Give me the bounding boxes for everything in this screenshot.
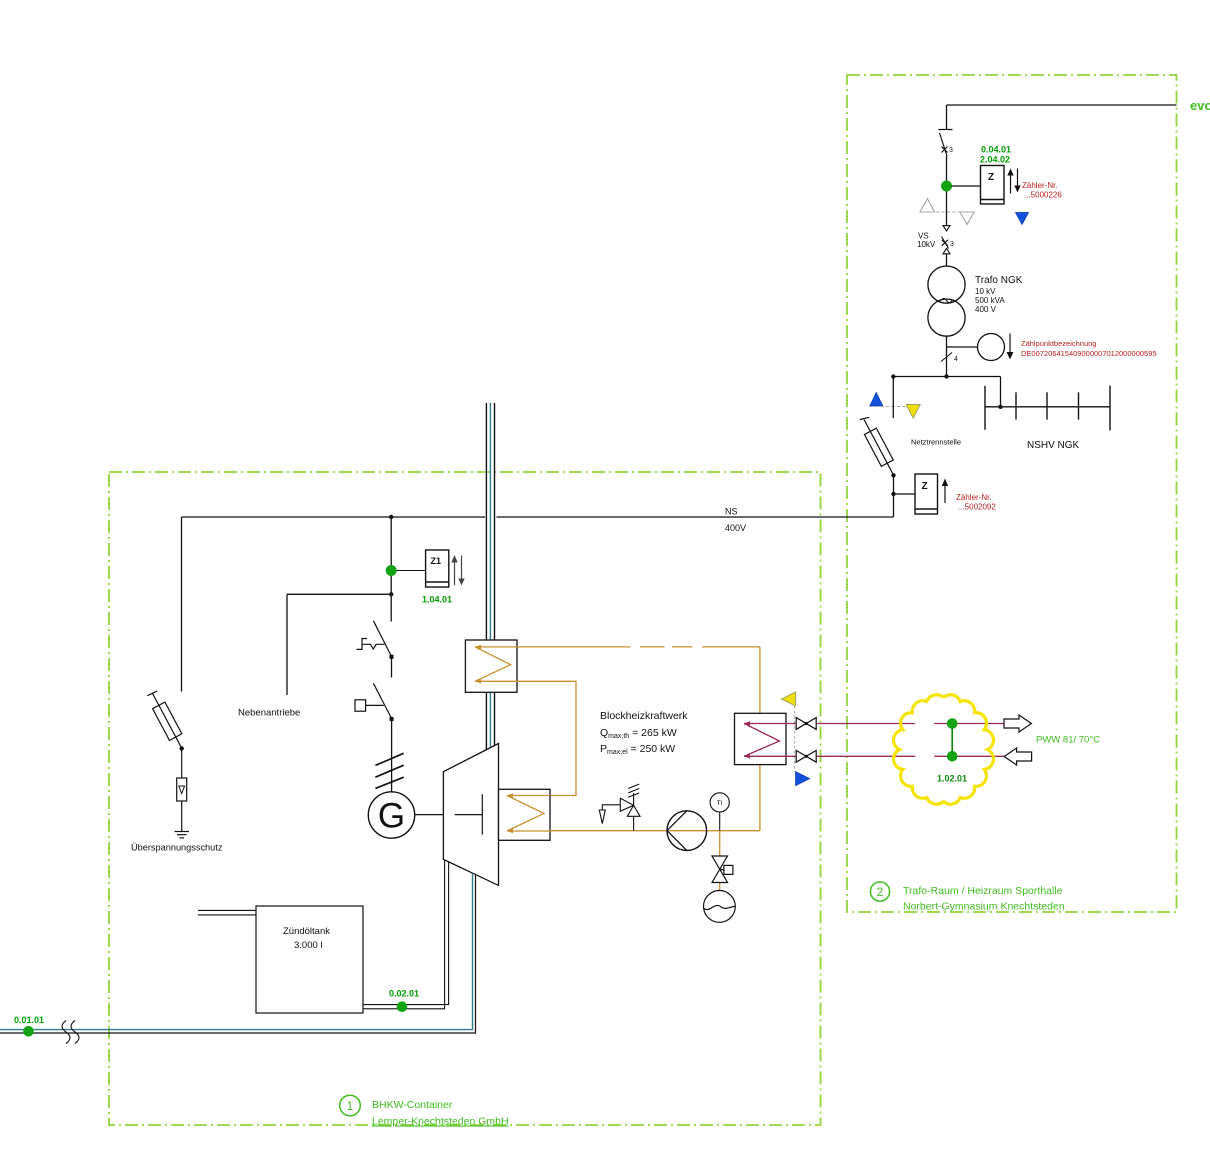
svg-text:TI: TI: [717, 800, 723, 807]
arrows at meter Z1: [451, 555, 464, 586]
pipe return lines (teal) engine to bottom: [0, 873, 473, 1029]
tank Zuendoeltank: [256, 906, 363, 1013]
node 0.02.01 green dot: [397, 1001, 408, 1012]
winding hatches: [375, 753, 403, 788]
svg-text:0.02.01: 0.02.01: [389, 989, 419, 999]
svg-text:10 kV: 10 kV: [975, 287, 996, 296]
circuit breaker with release: [357, 621, 392, 657]
svg-text:Zählpunktbezeichnung: Zählpunktbezeichnung: [1021, 339, 1096, 348]
section label 2 Trafo-Raum: [870, 882, 889, 901]
safety valve SV: [599, 784, 640, 831]
svg-text:G: G: [378, 797, 405, 836]
arrows energy direction at meter Z: [1007, 169, 1020, 194]
node 0.01.01 green dot: [23, 1026, 34, 1037]
valve (expansion line): [719, 831, 721, 891]
svg-text:1.04.01: 1.04.01: [422, 595, 452, 605]
marker yellow triangle (heating interface): [782, 692, 796, 706]
disconnector Q1 (HV switch): [939, 130, 953, 157]
wire evo feeder (HV incoming line): [947, 105, 1177, 130]
engine coupling mark: [455, 794, 483, 834]
thermometer TI: [710, 793, 729, 812]
svg-text:Nebenantriebe: Nebenantriebe: [238, 708, 300, 719]
svg-text:0.04.01: 0.04.01: [981, 145, 1011, 155]
marker blue triangle (meter): [1016, 213, 1029, 225]
arrow down at CT: [1009, 334, 1011, 354]
wire dot to meter Z: [952, 185, 981, 187]
node LV junction: [944, 374, 948, 378]
wire to meter Z 5002092: [894, 493, 916, 495]
wire fuse to arrester: [181, 748, 183, 778]
ground: [175, 832, 190, 838]
meter Z1: [426, 550, 449, 587]
arrow up at meter: [944, 484, 946, 503]
node 1.02.01 dots: [947, 718, 958, 729]
wire contactor to generator: [391, 719, 393, 792]
svg-text:1.02.01: 1.02.01: [937, 774, 967, 784]
marker blue triangle (Netztrennstelle): [870, 393, 883, 407]
surge arrester: [177, 778, 187, 801]
wire dashed boundary: [870, 406, 906, 408]
pipe exhaust lines (teal group) to top heat exchanger: [486, 403, 494, 750]
wire switch to transformer: [946, 156, 948, 226]
pump P1: [667, 811, 707, 851]
node 1.04.01 green dot: [386, 565, 397, 576]
svg-text:Z1: Z1: [431, 556, 442, 566]
svg-text:Netztrennstelle: Netztrennstelle: [911, 438, 961, 447]
section label 1 BHKW-Container: [340, 1095, 361, 1116]
container box 1 BHKW-Container (green dash-dot frame): [109, 472, 821, 1125]
pipe orange HX1 top port to BHKW HX (dashed run): [517, 647, 760, 713]
busbar NSHV NGK: [985, 386, 1110, 431]
svg-text:Lemper-Knechtsteden GmbH: Lemper-Knechtsteden GmbH: [372, 1116, 509, 1128]
LV fuse switch (open, with fuse body): [860, 417, 894, 475]
heat exchanger HX3 BHKW (plate): [735, 713, 787, 764]
svg-text:10kV: 10kV: [917, 240, 936, 249]
arrow flow in: [1004, 748, 1031, 765]
wire LV junction bar: [893, 377, 1000, 407]
svg-text:4: 4: [954, 356, 958, 363]
svg-text:Überspannungsschutz: Überspannungsschutz: [131, 843, 223, 853]
pipe PWW return line: [834, 755, 1005, 757]
svg-text:3: 3: [949, 147, 953, 154]
pipe PWW flow line: [834, 723, 1004, 725]
wire busbar junction to fuse: [892, 377, 894, 419]
wire dot to meter Z1: [397, 570, 426, 572]
meter Z (Zaehler 5000226): [981, 166, 1005, 205]
heat exchanger HX1 (exhaust, top): [465, 640, 517, 692]
wire arrester to ground: [181, 801, 183, 832]
svg-text:3: 3: [950, 241, 954, 248]
cloud (district boundary): [894, 695, 994, 804]
svg-text:Z: Z: [922, 481, 928, 492]
wire fuse to trafo: [946, 254, 948, 266]
pipe fuel lines engine to tank: [363, 860, 449, 1009]
LV fuse switch (surge branch, open): [147, 691, 182, 748]
svg-text:Z: Z: [988, 172, 994, 183]
svg-text:DE0072064154090000070120000005: DE007206415409000007012000000595: [1021, 349, 1157, 358]
conductor count slash 4: [941, 353, 952, 362]
generator G1: [368, 792, 414, 838]
svg-text:...5000226: ...5000226: [1024, 191, 1062, 200]
break mark on pipe: [62, 1021, 79, 1044]
svg-text:0.01.01: 0.01.01: [14, 1015, 44, 1025]
svg-text:Zündöltank: Zündöltank: [283, 926, 330, 937]
pipe tank fill lines: [198, 910, 256, 915]
wire NS to surge protection branch: [181, 517, 183, 692]
valve V1 (flow): [786, 723, 834, 725]
heat exchanger HX2 (engine): [499, 789, 551, 840]
marker blue triangle (heating interface): [796, 772, 810, 786]
wire dashed interface line: [794, 706, 796, 772]
container box 2 Trafo-Raum (green dash-dot frame): [847, 75, 1177, 912]
svg-text:3.000 l: 3.000 l: [294, 940, 323, 951]
engine block (trapezoid): [443, 744, 498, 886]
expansion vessel: [704, 891, 736, 923]
current transformer circle: [947, 346, 978, 348]
transformer Trafo NGK (two circles): [928, 266, 965, 336]
meter Z (Zaehler 5002092): [915, 474, 938, 514]
wire generator feeder down: [390, 517, 392, 622]
svg-text:1: 1: [347, 1099, 354, 1113]
svg-text:evo: evo: [1190, 98, 1210, 113]
svg-text:NSHV NGK: NSHV NGK: [1027, 440, 1080, 451]
contactor with drive: [355, 683, 392, 718]
svg-text:2.04.02: 2.04.02: [980, 155, 1010, 165]
wire NS 400V line: [182, 516, 894, 518]
wire breaker to contactor: [391, 657, 393, 678]
svg-text:Norbert-Gymnasium Knechtsteden: Norbert-Gymnasium Knechtsteden: [903, 901, 1065, 913]
svg-text:2: 2: [877, 885, 884, 899]
svg-text:400 V: 400 V: [975, 305, 997, 314]
pipe orange HX1 bottom port to engine HX: [517, 681, 576, 795]
svg-text:Blockheizkraftwerk: Blockheizkraftwerk: [600, 710, 688, 722]
node Nebenantriebe branch: [389, 592, 393, 596]
svg-text:Zähler-Nr.: Zähler-Nr.: [956, 493, 992, 502]
boundary marker grey triangles (property limit): [920, 199, 974, 225]
svg-text:BHKW-Container: BHKW-Container: [372, 1099, 453, 1111]
marker yellow triangle (Netztrennstelle): [906, 405, 920, 419]
wire fuse to NS line: [893, 475, 895, 517]
node NS / generator branch: [389, 515, 393, 519]
svg-text:NS: NS: [725, 507, 738, 517]
HV fuse switch VS 10kV (withdrawable): [942, 226, 951, 254]
svg-text:400V: 400V: [725, 523, 746, 533]
wire Nebenantriebe branch: [287, 594, 391, 695]
arrow flow out: [1004, 715, 1031, 732]
svg-text:500 kVA: 500 kVA: [975, 296, 1005, 305]
wire trafo to LV junction: [946, 336, 948, 376]
node 0.04.01 (green dot): [941, 181, 952, 192]
svg-text:Zähler-Nr.: Zähler-Nr.: [1022, 181, 1058, 190]
svg-text:...5002092: ...5002092: [958, 503, 996, 512]
svg-text:Trafo-Raum / Heizraum Sporthal: Trafo-Raum / Heizraum Sporthalle: [903, 885, 1063, 897]
pipe orange main loop bottom: [550, 765, 760, 831]
valve V2 (return): [786, 755, 834, 757]
svg-text:Trafo NGK: Trafo NGK: [975, 275, 1023, 286]
shaft generator to engine: [415, 814, 444, 816]
svg-text:PWW 81/ 70°C: PWW 81/ 70°C: [1036, 735, 1100, 746]
